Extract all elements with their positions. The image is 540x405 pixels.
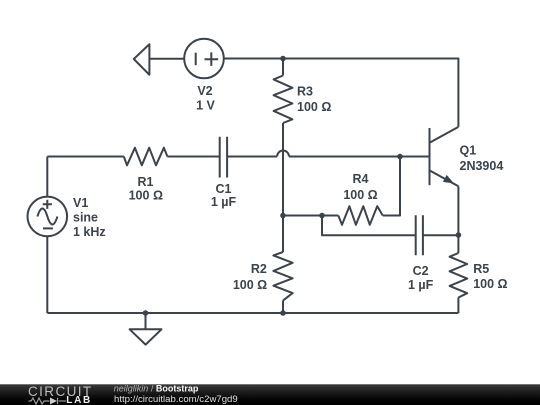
svg-text:100 Ω: 100 Ω bbox=[129, 188, 163, 202]
svg-text:R5: R5 bbox=[473, 262, 489, 276]
svg-text:R4: R4 bbox=[353, 172, 369, 186]
svg-text:100 Ω: 100 Ω bbox=[297, 100, 331, 114]
svg-text:1 µF: 1 µF bbox=[211, 195, 237, 209]
svg-text:1 kHz: 1 kHz bbox=[73, 225, 106, 239]
svg-text:100 Ω: 100 Ω bbox=[233, 278, 267, 292]
svg-text:neilglikin / Bootstrap: neilglikin / Bootstrap bbox=[114, 384, 199, 394]
svg-text:LAB: LAB bbox=[66, 395, 92, 405]
svg-text:100 Ω: 100 Ω bbox=[473, 277, 507, 291]
svg-text:V1: V1 bbox=[73, 196, 88, 210]
svg-text:1 V: 1 V bbox=[196, 99, 215, 113]
svg-text:V2: V2 bbox=[197, 84, 212, 98]
svg-text:sine: sine bbox=[73, 211, 98, 225]
svg-text:C2: C2 bbox=[413, 264, 429, 278]
svg-text:http://circuitlab.com/c2w7gd9: http://circuitlab.com/c2w7gd9 bbox=[114, 394, 238, 405]
svg-text:R2: R2 bbox=[251, 262, 267, 276]
svg-text:100 Ω: 100 Ω bbox=[343, 188, 377, 202]
svg-text:1 µF: 1 µF bbox=[408, 278, 434, 292]
svg-text:Q1: Q1 bbox=[460, 144, 477, 158]
svg-text:2N3904: 2N3904 bbox=[460, 159, 504, 173]
svg-text:R3: R3 bbox=[297, 84, 313, 98]
svg-text:R1: R1 bbox=[138, 175, 154, 189]
